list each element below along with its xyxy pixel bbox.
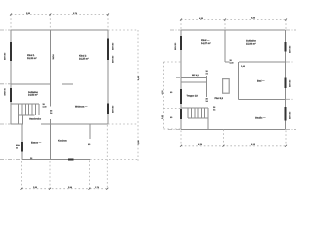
- wall right: [107, 30, 109, 124]
- dim bottom dropper x107.3: [106, 125, 108, 189]
- axis stub y99 right: [286, 98, 293, 100]
- dim bottom dropper mid: [223, 130, 225, 146]
- wall right: [285, 30, 287, 130]
- tick top-left-plan 2: [49, 14, 51, 16]
- svg-text:BRH 90: BRH 90: [112, 105, 115, 113]
- wall bottom-left segment y124: [11, 123, 23, 125]
- dim top dropper left: [10, 15, 12, 30]
- tick top-right-plan 2: [224, 19, 226, 21]
- dim bottom dropper left: [180, 131, 182, 146]
- wall top: [11, 29, 108, 31]
- wall top: [181, 29, 286, 31]
- labels right plan: [187, 39, 267, 120]
- window left wall lower: [10, 88, 12, 102]
- door mark bottom wall: [68, 159, 74, 161]
- svg-text:Kochen: Kochen: [58, 140, 67, 143]
- svg-text:BRH 90: BRH 90: [174, 42, 177, 50]
- svg-text:BRH 90: BRH 90: [289, 111, 292, 119]
- wall jog y62: [225, 61, 230, 63]
- svg-text:BRH 90: BRH 90: [289, 45, 292, 53]
- dash-dot axis stubs right plan: [168, 30, 296, 130]
- wall lower-room right x90: [89, 124, 91, 139]
- svg-text:90: 90: [16, 146, 18, 149]
- window right wall 1: [285, 42, 287, 52]
- tick top-left-plan 3: [107, 14, 109, 16]
- dim bottom dropper x50: [49, 161, 51, 189]
- dim bottom dropper x21.5: [21, 161, 23, 189]
- stair left edge: [187, 108, 189, 118]
- window right wall upper: [107, 39, 109, 61]
- wall left: [180, 30, 182, 130]
- svg-text:35/24: 35/24: [52, 54, 55, 60]
- dimension lines left plan: [11, 15, 138, 189]
- window left wall 3: [180, 109, 182, 119]
- tick top-right-plan 3: [285, 19, 287, 21]
- svg-text:14,82 m²: 14,82 m²: [28, 94, 38, 97]
- dim connector y30: [108, 29, 138, 31]
- wall wc right x206.5: [206, 76, 208, 97]
- dim top dropper right: [285, 20, 287, 30]
- svg-text:Bad —: Bad —: [257, 80, 265, 83]
- svg-text:16,25 m²: 16,25 m²: [79, 57, 89, 60]
- dim top line: [181, 19, 286, 21]
- wall lower-room left x22: [21, 124, 23, 160]
- dim top dropper mid: [224, 20, 226, 30]
- axis stub y129.5 left: [168, 129, 181, 131]
- dim left connector y103: [164, 108, 182, 110]
- dim top dropper mid: [49, 15, 51, 30]
- tick bottom-left-plan 4: [106, 188, 108, 190]
- wall interior x50 upper: [50, 30, 52, 106]
- svg-text:BRH 90: BRH 90: [112, 55, 115, 63]
- tick bottom-right-plan 2: [223, 145, 225, 147]
- wall bottom: [181, 129, 286, 131]
- window right wall lower: [107, 104, 109, 115]
- dim right vertical x138: [137, 30, 139, 161]
- svg-text:Studio —: Studio —: [255, 117, 266, 120]
- wall interior x50 lower: [50, 119, 52, 160]
- windows right plan: [181, 36, 286, 121]
- axis stub y30 right: [286, 29, 296, 31]
- tick top-left-plan 1: [10, 14, 12, 16]
- wall interior x225: [224, 30, 226, 62]
- dash-dot axis stubs left plan: [0, 30, 22, 160]
- wall interior y84 left: [11, 83, 51, 85]
- windows (thick dark) left plan: [11, 39, 108, 160]
- window left wall upper: [10, 42, 12, 61]
- dim left connector y62: [164, 61, 182, 63]
- shaft box: [223, 79, 230, 94]
- stair wall below v1: [17, 104, 19, 124]
- svg-text:BRH 90: BRH 90: [112, 42, 115, 50]
- window right wall 3: [285, 107, 287, 121]
- svg-text:WC 4,1: WC 4,1: [192, 74, 200, 77]
- dim top dropper left: [180, 20, 182, 30]
- window left wall 2: [180, 89, 182, 104]
- dim left connector y129: [164, 128, 182, 130]
- wall interior y62: [239, 61, 286, 63]
- stair wall below v2: [22, 115, 24, 124]
- labels left plan: [27, 54, 89, 145]
- stair bottom edge: [188, 117, 208, 119]
- dim connector y124: [108, 123, 138, 125]
- dim bottom dropper right: [285, 131, 287, 146]
- tick bottom-left-plan 3: [89, 188, 91, 190]
- axis stub y62 right: [286, 61, 293, 63]
- svg-text:BRH 90: BRH 90: [4, 87, 7, 95]
- wall bottom-main segment y124: [41, 123, 108, 125]
- wall x208: [207, 108, 209, 130]
- svg-text:Essen —: Essen —: [31, 142, 42, 145]
- svg-text:BRH 90: BRH 90: [289, 79, 292, 87]
- tick bottom-left-plan 1: [21, 188, 23, 190]
- window right wall 2: [285, 78, 287, 89]
- dim top line: [11, 14, 108, 16]
- window left wall 1: [180, 36, 182, 50]
- tick bottom-right-plan 3: [285, 145, 287, 147]
- axis stub y124: [0, 123, 11, 125]
- stair top edge: [181, 107, 208, 109]
- wall interior x238.6: [238, 62, 240, 99]
- dim connector y159.5: [90, 159, 138, 161]
- stair treads: [21, 104, 23, 115]
- svg-text:Garderobe: Garderobe: [29, 118, 42, 121]
- svg-text:14,27 m²: 14,27 m²: [201, 42, 211, 45]
- tick bottom-left-plan 2: [49, 188, 51, 190]
- svg-text:Wohnen —: Wohnen —: [75, 106, 88, 109]
- dim bottom line: [22, 188, 108, 190]
- axis stub y77 left: [176, 76, 181, 78]
- wall left: [10, 30, 12, 124]
- axis stub y30: [0, 29, 11, 31]
- tick bottom-right-plan 1: [180, 145, 182, 147]
- dim top dropper right: [107, 15, 109, 30]
- axis stub y159.5: [0, 159, 22, 161]
- wall wc upper y77.4: [181, 76, 207, 78]
- dim bottom dropper x89.5: [89, 161, 91, 189]
- svg-text:15,93 m²: 15,93 m²: [246, 42, 256, 45]
- wall interior y99.3: [239, 98, 286, 100]
- wall wc lower y82.2: [181, 81, 207, 83]
- dim left vertical x164: [163, 62, 165, 129]
- dimension lines right plan: [164, 20, 287, 146]
- stair treads: [191, 108, 193, 118]
- dim bottom line: [181, 145, 286, 147]
- wall lower-room bottom y159.5: [22, 159, 90, 161]
- stair top edge: [11, 103, 39, 105]
- axis stub y84: [0, 83, 11, 85]
- svg-text:Flur 8,3: Flur 8,3: [215, 97, 224, 100]
- svg-text:15,32 m²: 15,32 m²: [27, 57, 37, 60]
- svg-text:BRH 90: BRH 90: [4, 52, 7, 60]
- wall interior y84 right stub: [62, 83, 73, 85]
- window lower-room left: [21, 142, 23, 152]
- svg-text:Treppe 18: Treppe 18: [187, 95, 199, 98]
- stair bottom edge: [18, 114, 34, 116]
- dimension tick marks: [10, 14, 287, 190]
- tick top-right-plan 1: [180, 19, 182, 21]
- axis stub y129.5 right: [286, 129, 296, 131]
- axis stub y30 left: [170, 29, 181, 31]
